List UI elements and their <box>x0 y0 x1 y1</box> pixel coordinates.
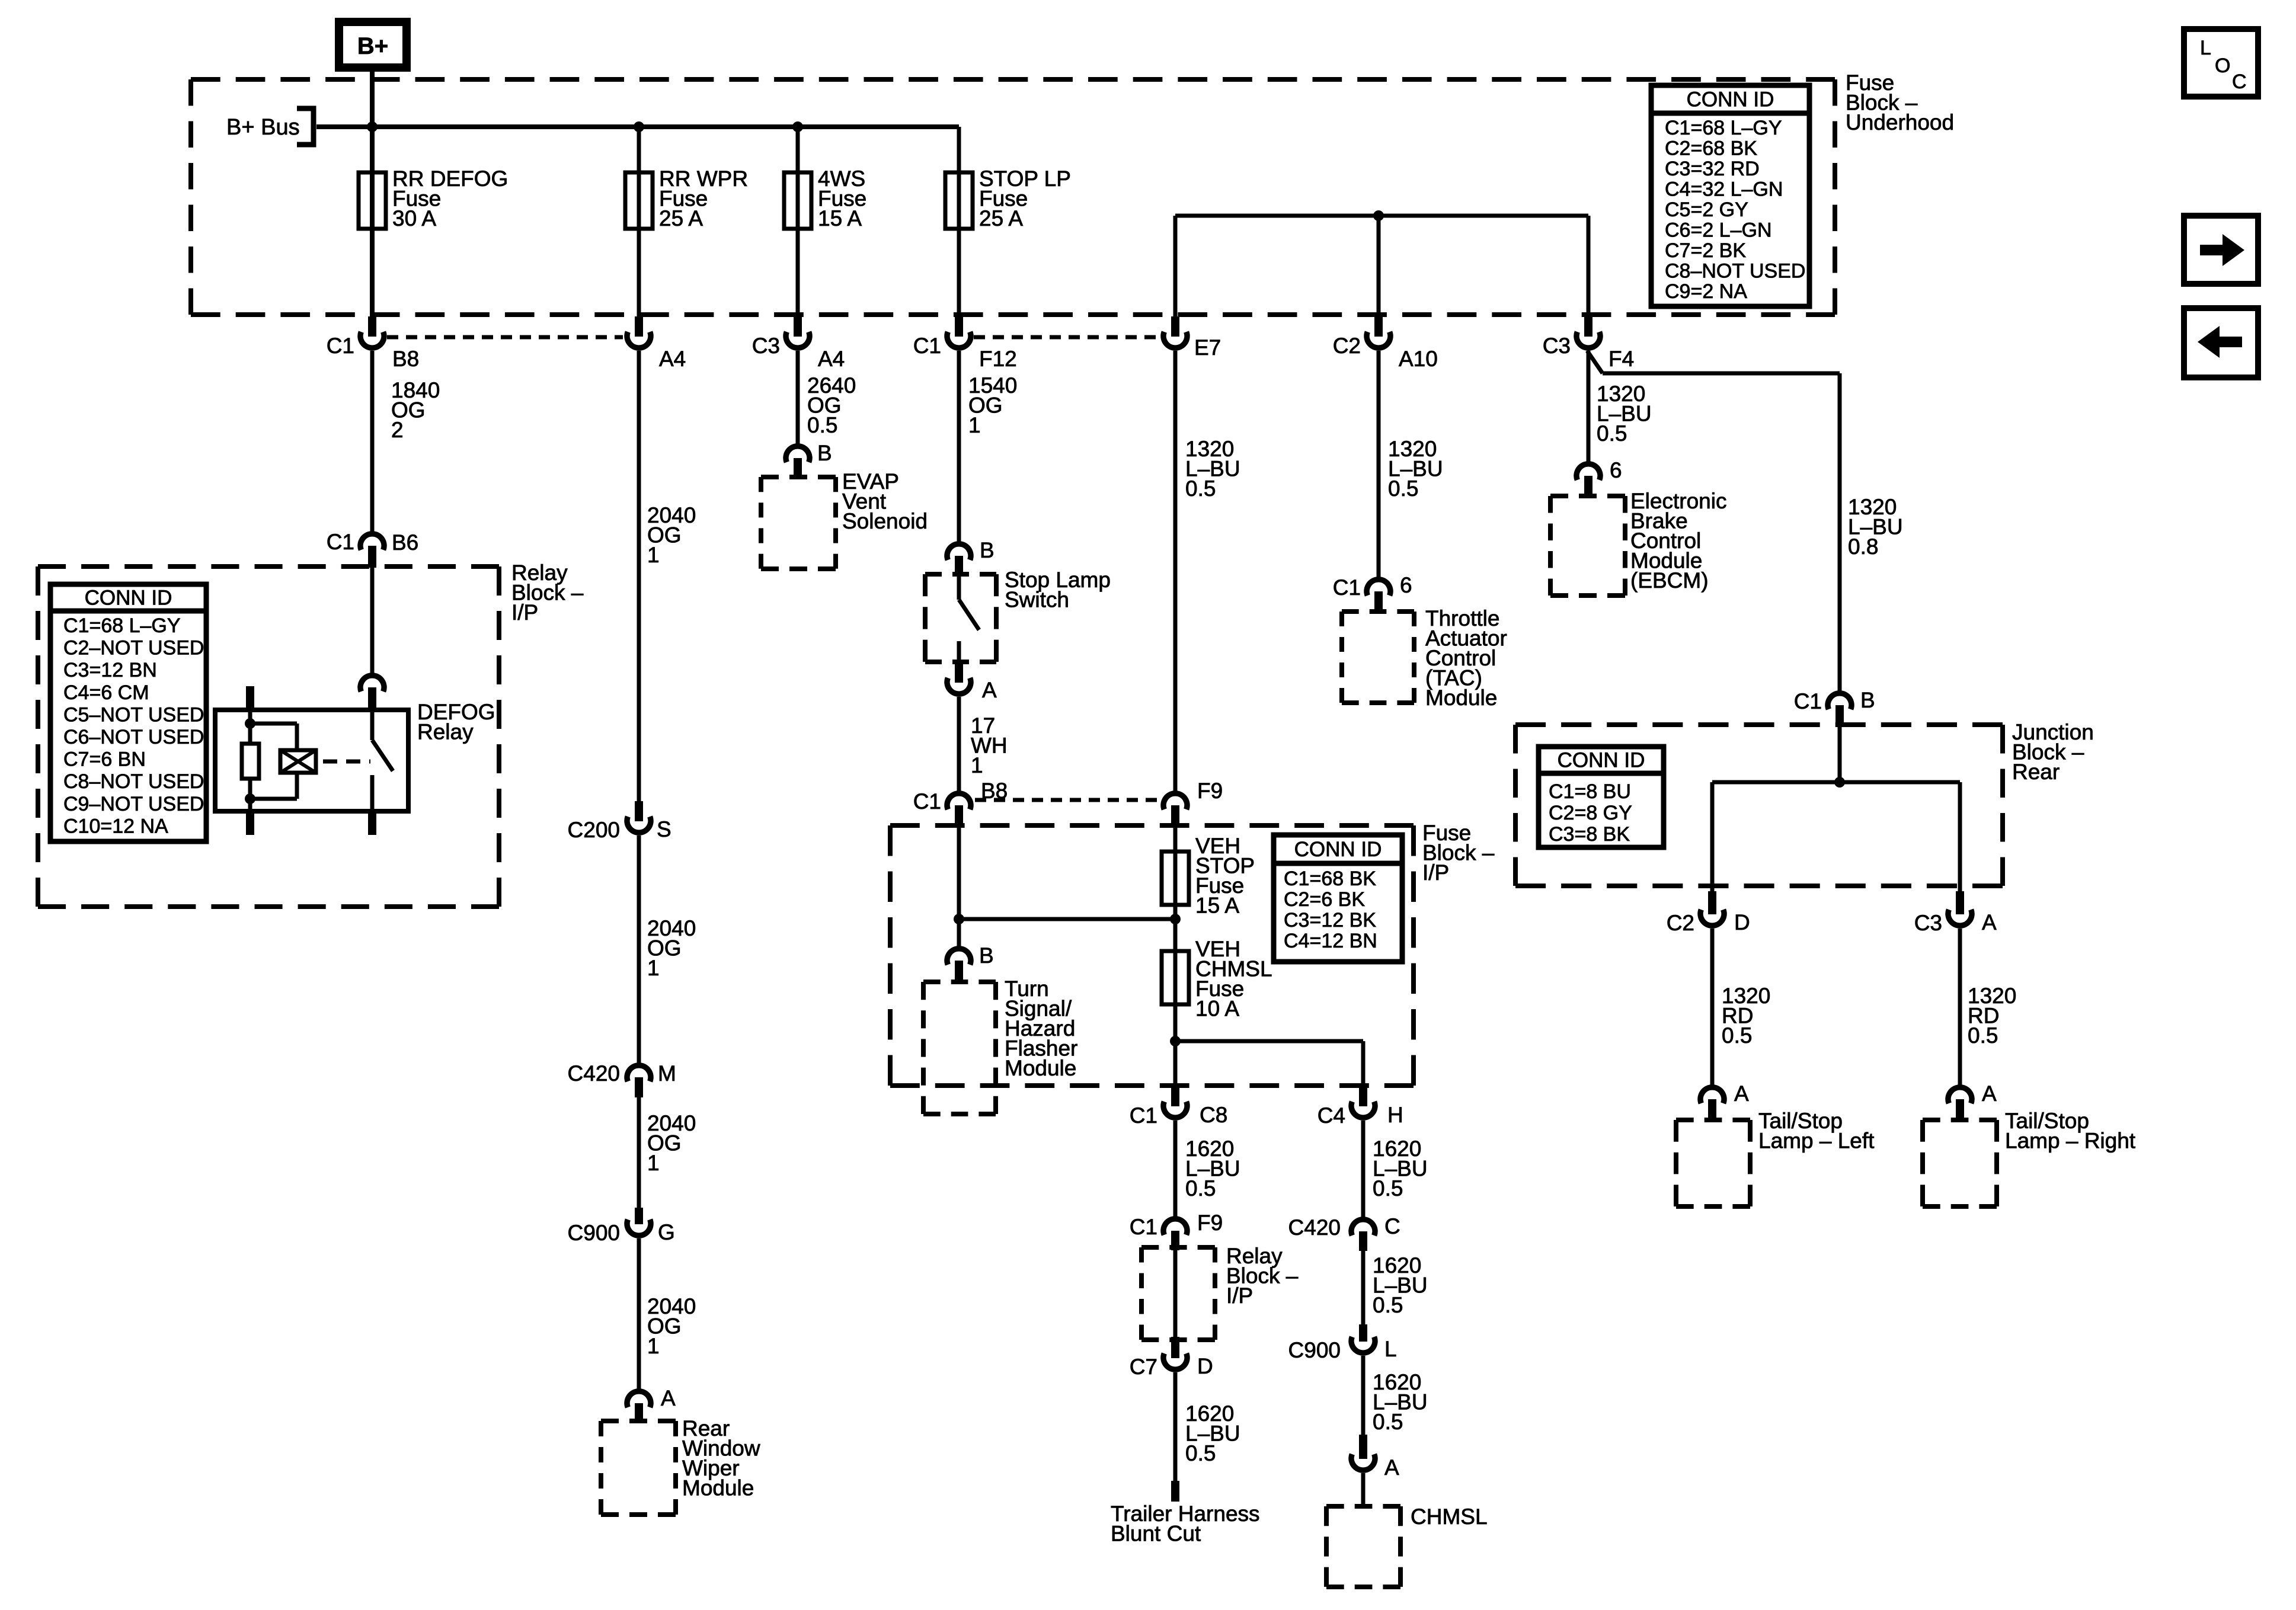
connector pin F9 (fuse block I/P) <box>1163 793 1187 809</box>
svg-text:F12: F12 <box>979 347 1017 371</box>
wire B into junction block <box>1838 726 1842 782</box>
svg-text:0.5: 0.5 <box>1373 1293 1403 1317</box>
svg-text:C2=8 GY: C2=8 GY <box>1549 802 1632 824</box>
wire C420 to C900 <box>1361 1251 1366 1324</box>
fuse VEH STOP 15A <box>1162 852 1189 905</box>
svg-text:C: C <box>2232 71 2247 93</box>
junction relay coil bottom <box>245 793 255 804</box>
svg-text:0.5: 0.5 <box>1185 1176 1216 1201</box>
switch defog relay blade <box>372 740 393 771</box>
conn-id table junction block rear <box>1539 747 1664 847</box>
connector C1 pin 6 (TAC) <box>1367 580 1390 596</box>
wire relay coil loop top <box>250 722 297 726</box>
svg-text:A: A <box>1384 1455 1399 1480</box>
svg-text:C900: C900 <box>1288 1338 1341 1362</box>
fuse RR WPR 25A <box>625 172 653 229</box>
svg-text:S: S <box>657 817 671 841</box>
svg-text:F9: F9 <box>1197 779 1223 803</box>
svg-text:0.5: 0.5 <box>1373 1176 1403 1201</box>
stop lamp switch box <box>925 572 996 577</box>
svg-text:C900: C900 <box>568 1221 620 1245</box>
tail stop lamp left box <box>1676 1118 1750 1122</box>
wire down to C1 B <box>1838 373 1842 691</box>
wire C3 A4 to EVAP <box>796 351 800 444</box>
svg-text:C4=6 CM: C4=6 CM <box>63 681 149 704</box>
junction relay coil top <box>245 718 255 729</box>
svg-text:A10: A10 <box>1399 347 1438 371</box>
svg-text:15 A: 15 A <box>818 206 862 231</box>
svg-text:C1: C1 <box>1130 1215 1157 1239</box>
EBCM box <box>1550 494 1625 498</box>
fuse VEH CHMSL 10A <box>1162 951 1189 1004</box>
svg-text:C1: C1 <box>327 334 354 358</box>
relay block I/P dashed box <box>38 564 499 569</box>
svg-text:C: C <box>1384 1214 1400 1238</box>
conn dotted line B8-F9 <box>975 798 1159 802</box>
svg-text:L: L <box>1384 1337 1397 1361</box>
svg-text:C9–NOT USED: C9–NOT USED <box>63 793 204 815</box>
svg-text:6: 6 <box>1610 458 1622 482</box>
wire bus drop RR WPR <box>637 127 641 318</box>
svg-text:Module: Module <box>682 1476 754 1500</box>
svg-text:1: 1 <box>968 413 981 437</box>
wire 1620 C8 to F9 <box>1173 1121 1178 1217</box>
svg-text:C5–NOT USED: C5–NOT USED <box>63 703 204 726</box>
svg-text:Relay: Relay <box>417 720 474 744</box>
connector C2 pin D <box>1708 891 1716 914</box>
connector C420 pin C <box>1351 1219 1375 1235</box>
svg-text:B: B <box>817 441 832 465</box>
wire through relay block <box>1173 1250 1178 1337</box>
connector C1 pin F12 (fuse block underhood) <box>955 316 963 337</box>
svg-text:G: G <box>658 1220 675 1244</box>
svg-text:C1=68 L–GY: C1=68 L–GY <box>63 614 181 637</box>
svg-text:C3: C3 <box>1543 334 1571 358</box>
svg-text:0.5: 0.5 <box>1373 1410 1403 1434</box>
svg-text:C2=68 BK: C2=68 BK <box>1665 137 1757 160</box>
svg-text:Lamp – Right: Lamp – Right <box>2005 1129 2136 1153</box>
svg-text:Underhood: Underhood <box>1846 110 1954 135</box>
svg-text:C8–NOT USED: C8–NOT USED <box>1665 260 1805 283</box>
wire bus drop 4WS <box>796 127 800 318</box>
svg-text:25 A: 25 A <box>979 206 1023 231</box>
connector C900 pin G <box>635 1208 643 1224</box>
junction veh stop node <box>1170 914 1181 924</box>
svg-text:Rear: Rear <box>2012 760 2060 784</box>
svg-text:B8: B8 <box>392 347 419 371</box>
connector C3 pin A (junction block) <box>1956 891 1964 914</box>
connector pin E7 (fuse block underhood) <box>1171 316 1179 337</box>
wire node to flasher B <box>957 919 961 946</box>
svg-text:C5=2 GY: C5=2 GY <box>1665 199 1748 221</box>
svg-text:C8–NOT USED: C8–NOT USED <box>63 770 204 793</box>
defog relay body <box>215 710 408 811</box>
LOC legend box <box>2184 29 2258 97</box>
wire F4 diagonal <box>1587 351 1603 373</box>
svg-text:C420: C420 <box>568 1061 620 1086</box>
svg-text:0.5: 0.5 <box>1597 421 1627 446</box>
svg-text:6: 6 <box>1400 573 1412 597</box>
fuse block underhood dashed box <box>191 77 1835 82</box>
svg-text:1: 1 <box>971 753 983 777</box>
wire C200 to C420 <box>637 836 641 1063</box>
defog relay pin stub top-left <box>246 686 254 710</box>
wire B8 into block <box>957 825 961 919</box>
svg-text:C8: C8 <box>1200 1103 1227 1127</box>
fuse block I/P dashed box <box>890 823 1414 828</box>
wire down to C2 D <box>1710 782 1715 891</box>
connector C3 pin F4 (fuse block underhood) <box>1584 316 1593 337</box>
connector C200 pin S <box>635 801 643 821</box>
wire 17 WH segment <box>957 697 961 791</box>
connector flasher module pin B <box>947 949 971 965</box>
svg-text:1: 1 <box>647 956 660 980</box>
svg-text:I/P: I/P <box>1226 1283 1253 1308</box>
wire F4 to EBCM <box>1587 351 1591 462</box>
wire B+ vertical <box>370 65 375 318</box>
junction internal bus at A10 <box>1373 210 1384 221</box>
svg-text:B: B <box>979 943 994 968</box>
svg-text:F4: F4 <box>1609 347 1634 371</box>
EVAP vent solenoid box <box>761 475 836 479</box>
svg-text:B6: B6 <box>392 530 418 555</box>
svg-text:C3=12 BK: C3=12 BK <box>1284 909 1376 932</box>
conn dotted line F12-E7 <box>974 335 1160 340</box>
svg-text:C2: C2 <box>1667 911 1694 935</box>
wire relay coil loop bottom <box>250 797 297 801</box>
junction B+ bus at RR DEFOG <box>367 121 378 132</box>
relay block I/P small dashed box <box>1141 1245 1215 1250</box>
svg-text:CONN ID: CONN ID <box>85 587 172 610</box>
wire H to C420 <box>1361 1121 1366 1217</box>
switch defog relay contact bottom <box>370 775 375 811</box>
svg-text:Blunt Cut: Blunt Cut <box>1111 1522 1201 1546</box>
svg-text:C2: C2 <box>1333 334 1361 358</box>
junction block rear dashed box <box>1515 722 2003 727</box>
svg-text:CONN ID: CONN ID <box>1294 838 1382 861</box>
svg-text:C7: C7 <box>1130 1355 1157 1379</box>
svg-text:C1: C1 <box>1333 575 1361 600</box>
power symbol B+ <box>339 22 407 68</box>
wire F12 to stop lamp switch <box>957 351 961 542</box>
svg-text:C10=12 NA: C10=12 NA <box>63 815 168 837</box>
svg-text:C2=6 BK: C2=6 BK <box>1284 888 1365 911</box>
rear window wiper module box <box>601 1419 676 1423</box>
svg-text:C1=8 BU: C1=8 BU <box>1549 780 1631 803</box>
connector stop lamp switch pin A <box>955 660 963 683</box>
svg-text:D: D <box>1734 910 1750 934</box>
wire 1620 to blunt cut <box>1173 1372 1178 1481</box>
svg-text:B+ Bus: B+ Bus <box>226 115 300 140</box>
net E7-A10-F4 internal bus <box>1175 214 1588 218</box>
defog relay pin stub bottom-right <box>368 811 376 835</box>
svg-text:C1: C1 <box>913 334 941 358</box>
svg-text:C4: C4 <box>1318 1103 1345 1128</box>
wire bus corner to STOP LP <box>957 127 961 318</box>
fuse STOP LP 25A <box>945 172 973 229</box>
connector tail lamp left pin A <box>1700 1087 1724 1103</box>
wire C900 to wiper module <box>637 1238 641 1389</box>
connector C2 pin A10 (fuse block underhood) <box>1374 316 1383 337</box>
svg-text:E7: E7 <box>1194 335 1221 360</box>
svg-text:C1=68 L–GY: C1=68 L–GY <box>1665 117 1782 139</box>
svg-text:C6–NOT USED: C6–NOT USED <box>63 726 204 748</box>
wire C900 to CHMSL <box>1361 1356 1366 1435</box>
wire F9 through fuses to C8 <box>1173 825 1178 1087</box>
connector C420 pin M <box>627 1065 651 1081</box>
svg-text:C7=2 BK: C7=2 BK <box>1665 239 1746 262</box>
CHMSL box <box>1326 1504 1400 1509</box>
defog relay pin stub bottom-left <box>246 811 254 835</box>
wire B+ bus horizontal <box>316 124 959 129</box>
wire 1320 RD left <box>1710 929 1715 1085</box>
defog relay resistor branch <box>248 710 252 744</box>
svg-text:A: A <box>1982 910 1997 934</box>
connector C1 pin B8 (fuse block I/P) <box>947 793 971 809</box>
svg-text:CONN ID: CONN ID <box>1687 88 1774 111</box>
svg-text:C4=32 L–GN: C4=32 L–GN <box>1665 178 1783 201</box>
wire 1840 OG segment <box>370 351 375 532</box>
svg-text:C9=2 NA: C9=2 NA <box>1665 280 1747 303</box>
svg-text:Solenoid: Solenoid <box>842 509 928 533</box>
svg-text:C3: C3 <box>752 334 780 358</box>
wire 1320 RD right <box>1958 929 1962 1085</box>
svg-text:A: A <box>982 678 997 702</box>
trailer harness blunt cut end <box>1171 1481 1179 1502</box>
conn-id table fuse block I/P <box>1274 835 1402 962</box>
wire node to veh stop node <box>959 917 1175 921</box>
wire B6 to defog relay <box>370 568 375 673</box>
connector C1 pin B6 (relay block I/P) <box>360 534 384 550</box>
svg-text:A: A <box>1734 1081 1749 1106</box>
svg-text:0.5: 0.5 <box>1722 1023 1752 1048</box>
svg-text:C420: C420 <box>1288 1215 1341 1240</box>
svg-text:C1=68 BK: C1=68 BK <box>1284 868 1376 890</box>
svg-text:30 A: 30 A <box>392 206 436 231</box>
connector C1 pin C8 (fuse block I/P bottom) <box>1171 1087 1179 1106</box>
switch stop lamp contact top <box>957 575 961 600</box>
wire F4 branch horizontal <box>1603 372 1840 376</box>
junction node junction block <box>1834 777 1845 788</box>
mechanical link coil to switch <box>323 760 370 764</box>
wire junction block horizontal <box>1712 780 1960 785</box>
svg-text:C7=6 BN: C7=6 BN <box>63 748 146 771</box>
tail stop lamp right box <box>1923 1118 1997 1122</box>
junction CHMSL branch <box>1170 1036 1181 1046</box>
svg-text:O: O <box>2215 55 2230 77</box>
svg-text:0.5: 0.5 <box>1185 1441 1216 1465</box>
TAC module box <box>1342 609 1414 614</box>
junction bus at 4WS <box>792 121 803 132</box>
svg-text:1: 1 <box>647 1151 660 1175</box>
wire A4 to C200 <box>637 351 641 801</box>
connector EVAP pin B <box>786 446 810 462</box>
connector C1 pin B (junction block rear) <box>1828 693 1851 709</box>
switch defog relay contact top <box>370 710 375 740</box>
connector pin A4 (fuse block underhood) <box>635 316 643 337</box>
connector C3 pin A4 (fuse block underhood) <box>794 316 802 337</box>
connector stop lamp switch pin B <box>947 544 971 560</box>
switch stop lamp blade <box>959 600 979 630</box>
svg-text:(EBCM): (EBCM) <box>1630 568 1709 593</box>
svg-text:0.5: 0.5 <box>1388 476 1418 501</box>
svg-text:C3=32 RD: C3=32 RD <box>1665 158 1760 180</box>
connector C4 pin H (fuse block I/P bottom) <box>1359 1087 1367 1106</box>
legend box arrow left <box>2184 308 2258 377</box>
junction bus at RR WPR <box>634 121 644 132</box>
connector C1 pin F9 (relay block I/P) <box>1163 1219 1187 1235</box>
junction B8 node <box>954 914 964 924</box>
svg-text:Switch: Switch <box>1005 588 1069 612</box>
connector C1 pin B8 (fuse block underhood) <box>368 316 376 337</box>
svg-text:A: A <box>661 1386 676 1410</box>
svg-text:1: 1 <box>647 1334 660 1358</box>
conn-id table fuse block underhood <box>1651 85 1809 306</box>
svg-text:B: B <box>1860 688 1875 712</box>
svg-text:C2–NOT USED: C2–NOT USED <box>63 637 204 660</box>
svg-text:F9: F9 <box>1197 1211 1223 1235</box>
svg-text:C1: C1 <box>913 789 941 814</box>
svg-text:10 A: 10 A <box>1195 997 1239 1021</box>
connector C7 pin D <box>1171 1337 1179 1358</box>
connector rear wiper pin A <box>627 1391 651 1407</box>
svg-text:A: A <box>1982 1081 1997 1106</box>
connector tail lamp right pin A <box>1948 1087 1972 1103</box>
connector EBCM pin 6 <box>1576 464 1600 480</box>
svg-text:0.5: 0.5 <box>1968 1023 1998 1048</box>
svg-text:D: D <box>1197 1354 1213 1378</box>
svg-text:A4: A4 <box>659 347 686 371</box>
svg-text:B+: B+ <box>357 33 388 59</box>
svg-text:H: H <box>1387 1103 1403 1127</box>
svg-text:0.8: 0.8 <box>1848 534 1878 559</box>
svg-text:CONN ID: CONN ID <box>1558 749 1645 772</box>
resistor defog relay <box>242 744 259 779</box>
svg-text:L: L <box>2200 37 2211 59</box>
conn-id table relay block I/P <box>50 584 206 841</box>
svg-text:C1: C1 <box>1130 1103 1157 1128</box>
svg-text:C200: C200 <box>568 818 620 842</box>
svg-text:C6=2 L–GN: C6=2 L–GN <box>1665 219 1772 242</box>
fuse 4WS 15A <box>784 172 811 229</box>
svg-text:Module: Module <box>1425 686 1497 710</box>
turn signal hazard flasher module box <box>923 980 996 984</box>
wire into CHMSL box <box>1361 1473 1366 1506</box>
wire C420 to C900 <box>637 1097 641 1208</box>
svg-text:C3=12 BN: C3=12 BN <box>63 659 157 681</box>
wire E7 to F9 <box>1173 351 1178 791</box>
svg-text:C3=8 BK: C3=8 BK <box>1549 823 1630 846</box>
connector CHMSL pin A <box>1359 1435 1367 1459</box>
svg-text:Module: Module <box>1005 1056 1076 1080</box>
svg-text:I/P: I/P <box>511 600 538 625</box>
coil defog relay (box with X) <box>280 750 316 773</box>
svg-text:Lamp – Left: Lamp – Left <box>1758 1129 1875 1153</box>
svg-text:C1: C1 <box>1794 689 1822 713</box>
legend box arrow right <box>2184 216 2258 284</box>
fuse RR DEFOG 30A <box>359 172 386 229</box>
wire A10 to TAC <box>1377 351 1381 577</box>
node B+ Bus bracket <box>297 108 314 145</box>
svg-text:0.5: 0.5 <box>807 413 837 437</box>
svg-text:C4=12 BN: C4=12 BN <box>1284 930 1377 952</box>
svg-text:1: 1 <box>647 543 660 567</box>
svg-text:A4: A4 <box>818 347 845 371</box>
svg-text:C3: C3 <box>1914 911 1942 935</box>
svg-text:I/P: I/P <box>1422 860 1449 885</box>
conn dotted line B8-A4 <box>387 335 623 340</box>
wire CHMSL branch down <box>1361 1041 1366 1087</box>
wire CHMSL branch horizontal <box>1175 1039 1363 1044</box>
svg-text:0.5: 0.5 <box>1185 476 1216 501</box>
svg-text:B: B <box>980 538 994 562</box>
svg-text:M: M <box>658 1061 676 1086</box>
svg-text:25 A: 25 A <box>659 206 703 231</box>
connector C900 pin L <box>1359 1324 1367 1342</box>
svg-text:C1: C1 <box>327 530 354 554</box>
svg-text:15 A: 15 A <box>1195 894 1239 918</box>
svg-text:CHMSL: CHMSL <box>1411 1505 1488 1529</box>
connector defog relay input <box>360 676 384 692</box>
switch stop lamp contact bottom <box>957 641 961 661</box>
svg-text:2: 2 <box>391 418 404 442</box>
wire down to C3 A <box>1958 782 1962 891</box>
